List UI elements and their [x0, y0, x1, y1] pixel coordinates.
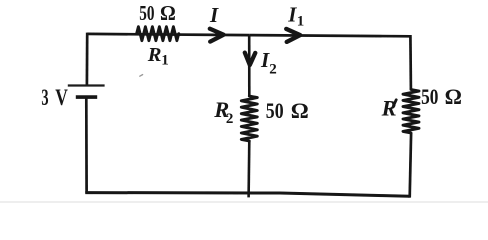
arrow I1 (current to right branch) — [286, 29, 300, 42]
wire right lower — [410, 133, 411, 198]
svg-text:Ω: Ω — [160, 1, 176, 25]
arrow I (current into node A) — [210, 29, 224, 42]
svg-text:V: V — [55, 85, 68, 111]
wire right upper — [409, 35, 412, 90]
svg-text:R: R — [381, 96, 397, 121]
svg-text:2: 2 — [269, 62, 277, 78]
wire bottom — [85, 193, 409, 197]
wire top (battery + to node A) — [87, 34, 249, 35]
wire left upper (top corner down to battery) — [86, 33, 89, 86]
svg-text:I: I — [209, 3, 219, 27]
wire middle upper (node A down to R2) — [248, 35, 251, 96]
svg-text:R: R — [147, 44, 162, 66]
svg-text:1: 1 — [297, 14, 305, 30]
arrow I2 (current down middle branch) — [245, 53, 256, 65]
resistor R' — [403, 90, 419, 134]
wire middle lower (R2 to bottom wire) — [247, 141, 250, 197]
svg-text:50: 50 — [266, 98, 284, 123]
svg-text:I: I — [287, 2, 297, 26]
svg-text:2: 2 — [226, 111, 234, 127]
resistor R1 — [137, 27, 179, 41]
wire left lower (battery - down to bottom wire) — [85, 97, 88, 193]
resistor R2 — [241, 96, 257, 141]
svg-text:3: 3 — [41, 85, 48, 111]
scan speck — [140, 75, 143, 77]
battery B1 short plate (-) — [76, 95, 97, 99]
wire top right (node A to right branch) — [249, 35, 410, 36]
svg-text:50: 50 — [139, 1, 154, 25]
battery B1 long plate (+) — [68, 84, 105, 86]
scan page edge — [0, 201, 488, 203]
svg-text:Ω: Ω — [291, 98, 309, 123]
svg-text:Ω: Ω — [445, 84, 462, 109]
svg-text:1: 1 — [161, 53, 169, 69]
svg-text:50: 50 — [421, 84, 438, 109]
